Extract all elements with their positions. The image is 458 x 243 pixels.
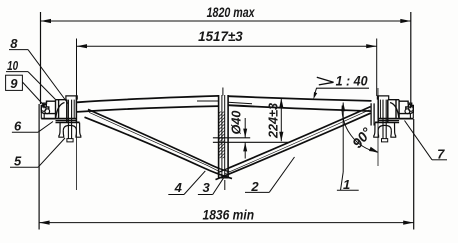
dimension 1836 min line — [39, 221, 414, 225]
leader 4 — [168, 171, 205, 195]
center tube inner left wall — [221, 95, 223, 178]
90° arc — [342, 106, 378, 153]
right hub beam-side plate — [371, 103, 374, 125]
center tube bottom — [218, 177, 229, 179]
right brace bottom line — [216, 113, 371, 179]
svg-text:Ø40: Ø40 — [229, 110, 244, 135]
left hub — [41, 96, 81, 142]
bracket line upper crossing tube — [213, 137, 250, 139]
leader 8 — [9, 50, 68, 104]
center tube axis stub below — [224, 180, 226, 190]
svg-text:1 : 40: 1 : 40 — [336, 74, 368, 89]
center tube outer right wall — [227, 95, 229, 178]
leader 3 — [198, 178, 224, 194]
extension line left 1820 — [40, 12, 42, 104]
svg-text:9: 9 — [10, 76, 18, 91]
taper 1:40 symbol — [317, 77, 334, 85]
extension line right 1517 — [376, 39, 378, 97]
bracket line lower / 224 extension — [213, 141, 290, 143]
extension line right 1820 — [410, 12, 412, 103]
brace top lines crossing tube — [218, 168, 230, 172]
right hub (mirror) — [374, 96, 414, 142]
center tube hatch — [219, 112, 225, 159]
center tube inner right wall — [224, 95, 226, 178]
kingpin axis left — [76, 96, 78, 190]
svg-text:4: 4 — [174, 180, 183, 195]
extension line left 1836 — [38, 104, 40, 230]
dimension Ø40 lower arrow — [243, 142, 247, 158]
svg-text:6: 6 — [14, 119, 22, 134]
beam top edge — [77, 96, 372, 102]
beam bottom edge — [77, 105, 372, 112]
right brace top line — [228, 107, 371, 169]
left brace centerline — [89, 112, 218, 171]
svg-text:8: 8 — [10, 36, 18, 51]
svg-text:7: 7 — [437, 146, 445, 161]
svg-text:1517±3: 1517±3 — [198, 29, 243, 44]
leader 10 — [6, 72, 56, 100]
dimension 1820 max line — [41, 19, 411, 23]
svg-text:10: 10 — [7, 58, 19, 73]
leader 6 — [12, 122, 53, 133]
leader 2 — [245, 157, 295, 192]
svg-text:1836 min: 1836 min — [203, 206, 255, 222]
center tube axis stub above beam — [222, 88, 224, 96]
label 9 box and leader — [6, 75, 45, 106]
leader 7 — [405, 121, 448, 160]
center tube outer left wall — [218, 95, 220, 178]
beam mid line left — [197, 101, 252, 104]
right brace centerline — [225, 110, 370, 174]
taper leader arrow — [313, 88, 317, 99]
leader 1 underline — [337, 172, 359, 190]
svg-text:5: 5 — [14, 154, 22, 169]
leader 5 — [10, 138, 65, 167]
taper 1:40 underline — [316, 87, 369, 89]
left brace bottom line — [85, 117, 233, 178]
kingpin axis right — [377, 88, 379, 166]
svg-text:2: 2 — [250, 179, 259, 194]
svg-text:1: 1 — [343, 177, 350, 192]
extension line left 1517 / axis — [76, 39, 78, 97]
svg-text:1820 max: 1820 max — [207, 4, 256, 20]
dimension 224±3 line — [279, 98, 283, 141]
90° dimension vertical line (label 1 leader) — [341, 102, 345, 172]
dimension Ø40 upper arrow — [243, 118, 247, 138]
svg-text:224±3: 224±3 — [266, 102, 281, 139]
extension line right 1836 — [413, 119, 415, 230]
svg-text:3: 3 — [202, 180, 210, 195]
dimension 1517±3 line — [77, 44, 377, 48]
left brace top line — [88, 109, 220, 168]
